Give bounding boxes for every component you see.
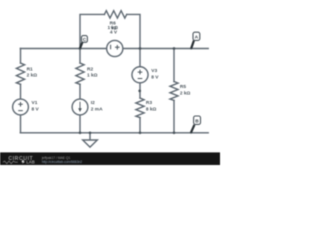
svg-text:1 kΩ: 1 kΩ [87,72,98,78]
svg-text:R5: R5 [180,84,186,90]
svg-text:R2: R2 [87,66,93,72]
svg-text:http://circuitlab.com/6663n2: http://circuitlab.com/6663n2 [42,160,82,164]
svg-text:8 kΩ: 8 kΩ [146,106,157,112]
svg-text:2 mA: 2 mA [91,106,103,112]
svg-text:A: A [195,34,199,40]
svg-text:2 kΩ: 2 kΩ [180,90,191,96]
svg-text:4 V: 4 V [110,30,118,36]
svg-text:LAB: LAB [26,160,35,165]
svg-text:R3: R3 [146,100,152,106]
svg-text:V3: V3 [151,68,157,74]
svg-text:V1: V1 [32,100,38,106]
svg-text:8 V: 8 V [32,106,40,112]
svg-text:I2: I2 [91,100,95,106]
svg-text:8 V: 8 V [151,74,159,80]
svg-text:R1: R1 [27,66,33,72]
svg-text:B: B [195,118,199,124]
svg-text:2 kΩ: 2 kΩ [27,72,38,78]
svg-text:C: C [83,37,87,43]
